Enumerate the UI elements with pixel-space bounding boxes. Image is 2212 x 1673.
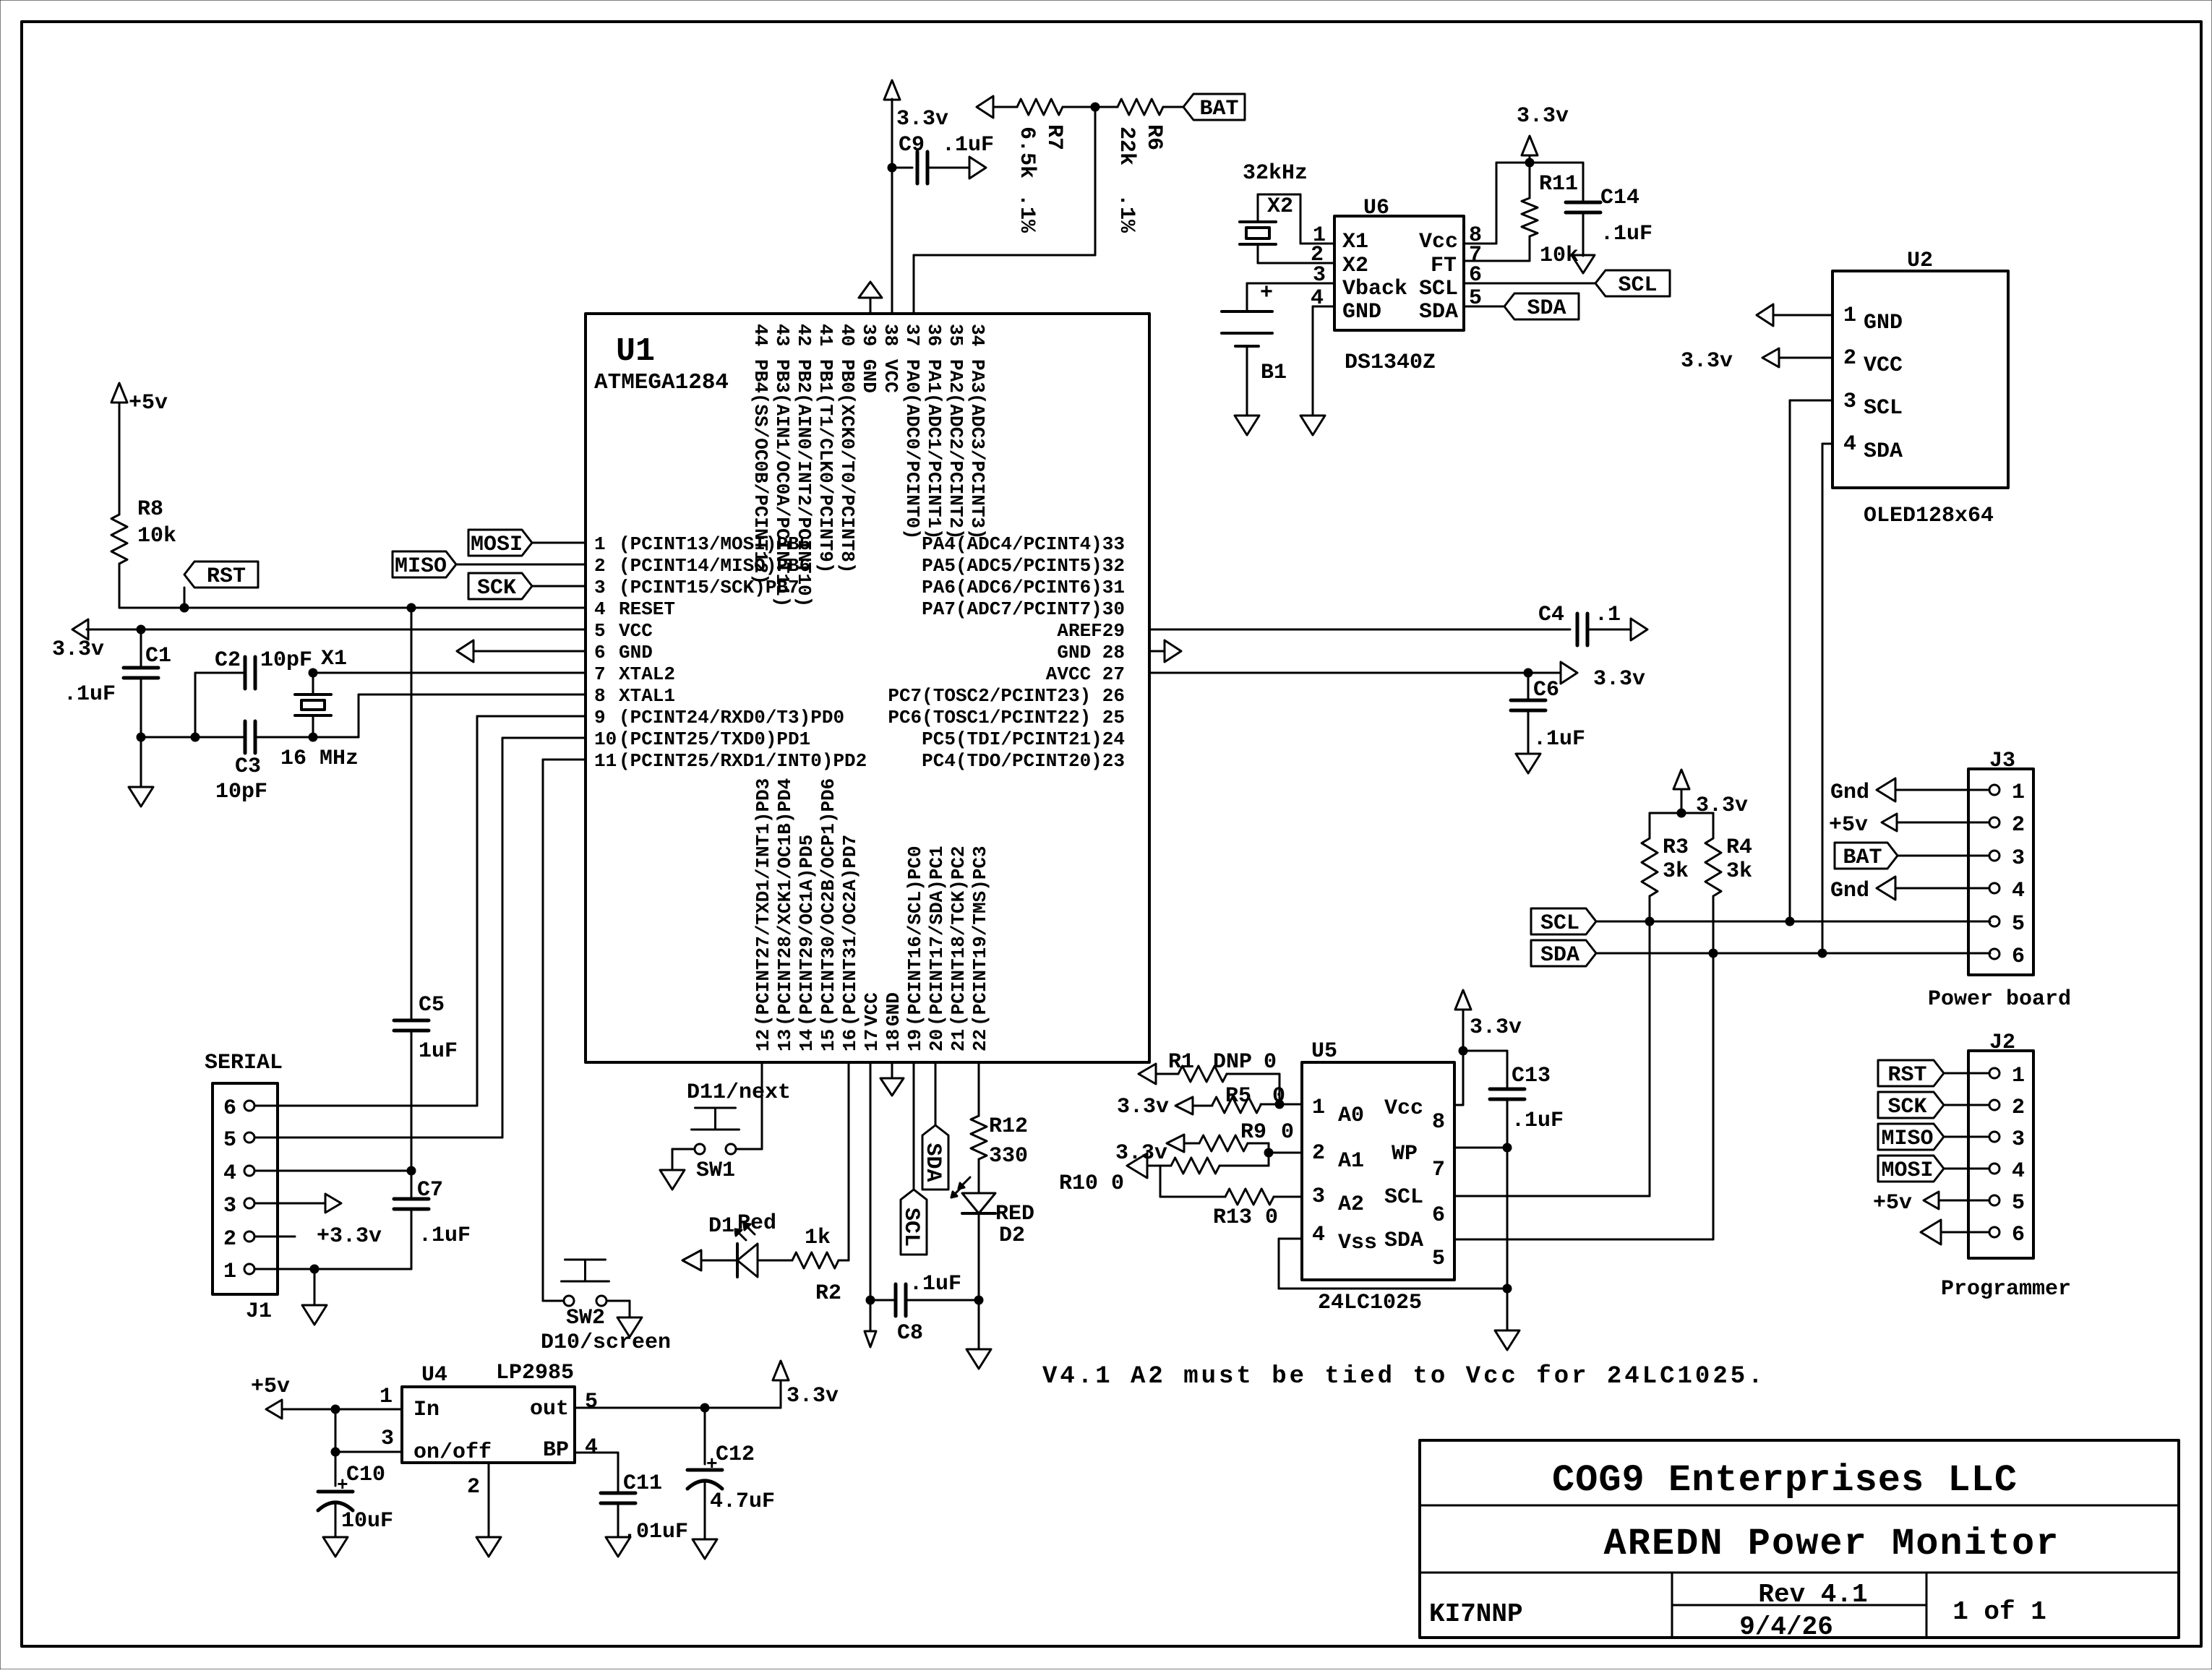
svg-text:MISO: MISO [1881, 1127, 1933, 1151]
svg-text:4.7uF: 4.7uF [710, 1489, 775, 1514]
J2 pin 3 circle [1989, 1132, 1999, 1142]
svg-text:5: 5 [223, 1128, 236, 1153]
arrow right AVCC 3.3v [1528, 672, 1561, 674]
svg-text:3.3v: 3.3v [52, 637, 104, 662]
svg-text:3.3v: 3.3v [1117, 1095, 1169, 1119]
J1 pin 4 circle [244, 1166, 254, 1176]
wire GND pin28 arrow [1149, 650, 1165, 653]
wire J1-2 stub [254, 1236, 295, 1238]
power 3.3v arrow at out [780, 1380, 782, 1408]
svg-text:X2: X2 [1342, 254, 1368, 278]
svg-text:U5: U5 [1311, 1039, 1337, 1064]
wire J3-4 Gnd [1895, 887, 1989, 890]
power 3.3v arrow above R3 R4 [1673, 770, 1689, 789]
svg-text:3.3v: 3.3v [1517, 104, 1569, 129]
wire AVCC pin27 to C6 [1149, 672, 1528, 674]
svg-text:8: 8 [1432, 1110, 1445, 1135]
arrow GND pin6 [457, 640, 473, 662]
wire SW1 left to gnd [672, 1148, 695, 1151]
svg-text:C5: C5 [419, 993, 445, 1018]
svg-text:3.3v: 3.3v [1115, 1141, 1167, 1166]
svg-text:20: 20 [926, 1029, 948, 1051]
svg-text:SERIAL: SERIAL [205, 1051, 283, 1075]
svg-text:KI7NNP: KI7NNP [1429, 1599, 1523, 1629]
junction R9 R10 pin A1 [1264, 1148, 1273, 1157]
svg-text:3: 3 [594, 577, 606, 598]
svg-text:4: 4 [2012, 1159, 2025, 1184]
svg-text:.1uF: .1uF [909, 1272, 961, 1296]
svg-text:13: 13 [774, 1029, 796, 1051]
wire BP pin4 to C11 [575, 1452, 618, 1454]
svg-text:3.3v: 3.3v [1681, 349, 1733, 374]
svg-text:C2: C2 [215, 648, 241, 673]
svg-text:42: 42 [793, 324, 815, 346]
J1 pin 2 circle [244, 1231, 254, 1242]
J3 pin 1 circle [1989, 785, 1999, 795]
svg-text:C10: C10 [346, 1463, 385, 1487]
svg-text:44: 44 [750, 324, 771, 346]
svg-text:(PCINT24/RXD0/T3)PD0: (PCINT24/RXD0/T3)PD0 [619, 707, 844, 728]
svg-text:PB0(XCK0/T0/PCINT8): PB0(XCK0/T0/PCINT8) [836, 359, 858, 573]
capacitor C2 10pF [244, 657, 247, 689]
net flag MOSI at J2 [1878, 1156, 1944, 1182]
svg-text:SCL: SCL [1864, 396, 1903, 421]
svg-text:C14: C14 [1600, 186, 1639, 210]
svg-text:0: 0 [1272, 1084, 1285, 1109]
svg-text:2: 2 [1312, 1141, 1325, 1166]
J1 pin 5 circle [244, 1132, 254, 1143]
svg-text:.1%: .1% [1114, 194, 1139, 233]
svg-text:6: 6 [2012, 1223, 2025, 1247]
svg-text:1: 1 [380, 1385, 393, 1409]
svg-text:SW2: SW2 [566, 1306, 605, 1330]
svg-text:(PCINT25/TXD0)PD1: (PCINT25/TXD0)PD1 [619, 728, 810, 750]
svg-text:PA7(ADC7/PCINT7)30: PA7(ADC7/PCINT7)30 [922, 598, 1125, 620]
wire J1-5 to pin10 net [254, 1137, 502, 1139]
svg-text:43: 43 [771, 324, 793, 346]
wire PA0 pin37 to divider [913, 255, 915, 314]
junction Vss gnd rail [1503, 1284, 1512, 1293]
IC U2 OLED128x64 body [1832, 271, 2008, 488]
wire R8 to RESET line [119, 564, 121, 608]
svg-text:C3: C3 [235, 754, 261, 779]
svg-text:(PCINT27/TXD1/INT1)PD3: (PCINT27/TXD1/INT1)PD3 [753, 778, 774, 1026]
wire TXD0 pin10 to J1-5 [502, 737, 586, 739]
ground below C12 [693, 1539, 717, 1559]
svg-text:10uF: 10uF [341, 1509, 393, 1534]
svg-text:330: 330 [989, 1144, 1028, 1169]
wire pin19 down to SCL flag [913, 1062, 915, 1190]
LED D1 Red [736, 1244, 739, 1277]
svg-text:XTAL2: XTAL2 [619, 663, 675, 685]
svg-text:R10 0: R10 0 [1059, 1171, 1124, 1196]
svg-text:B1: B1 [1261, 361, 1287, 385]
svg-text:Red: Red [737, 1211, 776, 1236]
ground below D2 [966, 1349, 991, 1369]
svg-text:J1: J1 [246, 1299, 272, 1324]
J2 pin 5 circle [1989, 1195, 1999, 1205]
svg-text:9: 9 [594, 707, 606, 728]
power 3.3v arrow above R11 [1522, 136, 1538, 155]
svg-text:PC5(TDI/PCINT21)24: PC5(TDI/PCINT21)24 [922, 728, 1125, 750]
svg-text:U2: U2 [1907, 249, 1933, 273]
svg-text:out: out [530, 1397, 569, 1422]
capacitor C3 10pF [244, 721, 247, 753]
svg-text:MISO: MISO [395, 554, 447, 579]
svg-text:In: In [413, 1398, 440, 1422]
svg-text:9/4/26: 9/4/26 [1739, 1612, 1833, 1642]
svg-text:3.3v: 3.3v [1593, 667, 1645, 692]
svg-text:RESET: RESET [619, 598, 675, 620]
svg-text:3: 3 [2012, 1127, 2025, 1152]
svg-text:SDA: SDA [1419, 300, 1458, 324]
J3 pin 4 circle [1989, 883, 1999, 893]
resistor R6 22k .1% [1095, 106, 1118, 108]
wire RXD0 pin9 to J1-6 [477, 715, 586, 718]
wire U5 SDA pin5 [1454, 1239, 1713, 1241]
svg-text:17: 17 [861, 1029, 883, 1051]
svg-text:32kHz: 32kHz [1243, 161, 1308, 186]
svg-text:8: 8 [594, 685, 606, 707]
wire J2-5 +5v [1939, 1200, 1989, 1202]
wire R4 down to U5 SDA [1712, 953, 1715, 1239]
svg-text:4: 4 [1312, 1223, 1325, 1247]
svg-text:R2: R2 [815, 1281, 841, 1306]
svg-text:A0: A0 [1338, 1104, 1364, 1128]
svg-text:BP: BP [543, 1438, 569, 1463]
wire XTAL1 pin8 jog [358, 694, 360, 737]
J3 pin 2 circle [1989, 817, 1999, 827]
svg-text:PA2(ADC2/PCINT2): PA2(ADC2/PCINT2) [945, 359, 966, 540]
gnd triangle below C14 [1572, 255, 1595, 273]
wire R2 to pin16 [839, 1260, 849, 1262]
wire SW1 right to pin12 [736, 1148, 762, 1151]
J1 pin 1 circle [244, 1264, 254, 1274]
svg-text:R5: R5 [1225, 1084, 1251, 1109]
svg-text:.1uF: .1uF [1512, 1109, 1564, 1133]
svg-text:3k: 3k [1663, 859, 1689, 884]
wire U2 GND pin1 [1773, 314, 1832, 317]
svg-text:22k: 22k [1114, 126, 1139, 165]
svg-text:10pF: 10pF [215, 780, 267, 804]
svg-text:18: 18 [883, 1029, 904, 1051]
svg-text:VCC: VCC [861, 992, 883, 1026]
svg-text:VCC: VCC [880, 359, 901, 393]
capacitor C8 .1uF [870, 1299, 896, 1302]
svg-text:7: 7 [1432, 1158, 1445, 1182]
rail R3 R4 top [1650, 812, 1713, 814]
gnd symbol pin39 above U1 [870, 298, 872, 314]
J3 pin 6 circle [1989, 949, 1999, 959]
net flag RST at J2 [1878, 1060, 1944, 1086]
svg-text:R11: R11 [1539, 172, 1578, 197]
wire U2 VCC pin2 [1779, 357, 1832, 359]
svg-text:DS1340Z: DS1340Z [1345, 350, 1436, 375]
svg-text:AREDN Power Monitor: AREDN Power Monitor [1604, 1523, 2060, 1565]
wire In pin1 +5v [282, 1408, 402, 1411]
capacitor C6 .1uF [1527, 673, 1530, 700]
wire pin20 down to SDA flag [935, 1062, 937, 1125]
resistor R13 0 to pin A2 [1159, 1166, 1162, 1197]
svg-text:R6: R6 [1141, 124, 1166, 150]
svg-text:(PCINT31/OC2A)PD7: (PCINT31/OC2A)PD7 [839, 835, 861, 1026]
wire SDA rail [1596, 952, 1990, 955]
svg-text:PB3(AIN1/OC0A/PCINT11): PB3(AIN1/OC0A/PCINT11) [771, 359, 793, 607]
capacitor C9 .1uF [892, 167, 912, 169]
svg-text:PC4(TDO/PCINT20)23: PC4(TDO/PCINT20)23 [922, 750, 1125, 772]
arrow left U2 VCC 3.3v [1762, 348, 1779, 367]
net flag MISO to pin2 [393, 551, 456, 577]
svg-text:SDA: SDA [1540, 943, 1579, 968]
wire AREF pin29 to C4 [1149, 629, 1570, 631]
arrow left U2 GND [1757, 304, 1773, 326]
junction In on/off [331, 1405, 340, 1414]
svg-text:.1uF: .1uF [1600, 222, 1652, 246]
resistor R1 DNP 0 [1139, 1064, 1156, 1084]
svg-text:J3: J3 [1989, 749, 2015, 773]
svg-text:C6: C6 [1533, 678, 1559, 702]
svg-text:SDA: SDA [1527, 296, 1566, 321]
svg-text:3: 3 [2012, 846, 2025, 871]
svg-text:39: 39 [858, 324, 880, 346]
arrow left D1 [682, 1250, 701, 1270]
svg-text:4: 4 [585, 1435, 598, 1460]
svg-text:R8: R8 [137, 497, 163, 522]
junction X1 bottom [309, 733, 317, 741]
svg-text:Vback: Vback [1342, 277, 1407, 301]
svg-text:RST: RST [207, 564, 246, 589]
svg-text:4: 4 [2012, 879, 2025, 903]
svg-text:SCL: SCL [899, 1208, 923, 1247]
resistor R12 330 [978, 1062, 980, 1116]
resistor R2 1k [758, 1260, 792, 1262]
J3 pin 3 circle [1989, 851, 1999, 861]
ground below C11 [606, 1537, 630, 1557]
svg-text:MOSI: MOSI [1881, 1158, 1933, 1183]
resistor R11 10k [1529, 163, 1531, 198]
resistor R3 3k [1649, 813, 1651, 838]
svg-text:PA0(ADC0/PCINT0): PA0(ADC0/PCINT0) [901, 359, 923, 540]
svg-text:+5v: +5v [129, 391, 168, 416]
net flag MISO at J2 [1878, 1124, 1944, 1150]
svg-text:AVCC 27: AVCC 27 [1046, 663, 1125, 685]
svg-text:J2: J2 [1989, 1031, 2015, 1055]
svg-text:XTAL1: XTAL1 [619, 685, 675, 707]
svg-text:C11: C11 [623, 1471, 662, 1496]
svg-text:+: + [1260, 281, 1273, 306]
IC U1 ATMEGA1284 body [586, 314, 1149, 1062]
wire J3-2 +5v [1897, 822, 1989, 824]
net flag SCL vertical [901, 1190, 927, 1255]
wire Vback pin3 to battery [1247, 283, 1334, 285]
svg-text:4: 4 [594, 598, 606, 620]
wire J1-3 +3.3v arrow [254, 1203, 325, 1205]
svg-text:19: 19 [904, 1029, 926, 1051]
svg-text:(PCINT25/RXD1/INT0)PD2: (PCINT25/RXD1/INT0)PD2 [619, 750, 867, 772]
ground below U6 pin4 [1300, 416, 1325, 435]
svg-text:Vcc: Vcc [1419, 230, 1458, 254]
wire Vcc pin8 to 3.3v [1464, 243, 1496, 245]
svg-text:D11/next: D11/next [687, 1080, 791, 1105]
connector J1 SERIAL body [213, 1083, 278, 1294]
svg-text:1: 1 [1843, 304, 1856, 328]
wire SW2 right to gnd [606, 1300, 630, 1302]
wire U5 SCL pin6 [1454, 1195, 1650, 1197]
capacitor C12 4.7uF [704, 1408, 706, 1464]
wire J1-1 gnd [254, 1268, 411, 1270]
svg-text:16: 16 [839, 1029, 861, 1051]
svg-text:Vss: Vss [1338, 1231, 1377, 1255]
capacitor C4 .1 [1576, 614, 1579, 645]
svg-text:.1uF: .1uF [419, 1223, 471, 1248]
junction C6 [1524, 668, 1532, 677]
svg-text:21: 21 [948, 1029, 969, 1051]
net flag SCL main [1531, 908, 1596, 934]
net flag SDA vertical [922, 1125, 948, 1190]
svg-text:D2: D2 [999, 1223, 1025, 1248]
svg-text:C7: C7 [417, 1178, 443, 1203]
svg-text:Vcc: Vcc [1384, 1096, 1423, 1121]
svg-text:PB1(T1/CLK0/PCINT9): PB1(T1/CLK0/PCINT9) [815, 359, 836, 573]
gnd symbol pin18 below U1 [891, 1062, 893, 1078]
J1 pin 3 circle [244, 1198, 254, 1208]
svg-text:3: 3 [1843, 390, 1856, 414]
svg-text:U1: U1 [616, 333, 655, 370]
wire R3 down to U5 SCL [1649, 921, 1651, 1196]
svg-text:5: 5 [594, 620, 606, 642]
svg-text:35: 35 [945, 324, 966, 346]
svg-text:GND: GND [1342, 300, 1381, 324]
svg-text:RST: RST [1887, 1063, 1926, 1088]
wire SCL rail [1596, 921, 1990, 923]
svg-text:3: 3 [1312, 1184, 1325, 1209]
connector J3 Power board body [1968, 769, 2033, 975]
J3 pin 5 circle [1989, 916, 1999, 926]
svg-text:C9: C9 [899, 133, 925, 158]
svg-text:GND: GND [858, 359, 880, 393]
svg-text:COG9 Enterprises LLC: COG9 Enterprises LLC [1552, 1459, 2018, 1502]
wire J3-1 Gnd [1895, 789, 1989, 791]
capacitor C1 .1uF [140, 629, 142, 668]
svg-text:PB4(SS/OC0B/PCINT12): PB4(SS/OC0B/PCINT12) [750, 359, 771, 585]
svg-text:1uF: 1uF [419, 1039, 458, 1064]
svg-text:5: 5 [585, 1390, 598, 1414]
svg-text:37: 37 [901, 324, 923, 346]
svg-text:38: 38 [880, 324, 901, 346]
wire FT pin7 to R11 [1464, 260, 1530, 262]
wire J1-4 to C5 [254, 1170, 411, 1172]
svg-text:U6: U6 [1363, 196, 1389, 220]
svg-text:36: 36 [923, 324, 945, 346]
title block frame [1420, 1440, 2179, 1638]
svg-text:1: 1 [223, 1260, 236, 1284]
arrow 3.3v left of R7 [977, 96, 993, 118]
svg-text:1: 1 [2012, 1064, 2025, 1088]
svg-text:34: 34 [966, 324, 988, 346]
ground below J1-1 [302, 1305, 327, 1325]
svg-text:3k: 3k [1726, 859, 1752, 884]
svg-text:5: 5 [2012, 912, 2025, 937]
junction SCL U2 [1786, 917, 1794, 926]
junction C2 left [191, 733, 200, 741]
svg-text:R1: R1 [1168, 1050, 1194, 1075]
net flag MOSI to pin1 [468, 530, 532, 556]
svg-text:+5v: +5v [1829, 813, 1868, 838]
wire SDA pin5 to flag [1464, 306, 1504, 308]
J2 pin 4 circle [1989, 1164, 1999, 1174]
svg-text:C13: C13 [1512, 1064, 1551, 1088]
IC U5 24LC1025 body [1302, 1062, 1454, 1280]
svg-text:VCC: VCC [1864, 353, 1903, 378]
junction C8 right [974, 1296, 983, 1304]
svg-text:SCK: SCK [1887, 1095, 1926, 1119]
capacitor C5 1uF [411, 608, 413, 1020]
svg-text:R3: R3 [1663, 835, 1689, 860]
J2 pin 2 circle [1989, 1100, 1999, 1110]
svg-text:R12: R12 [989, 1114, 1028, 1139]
svg-text:3.3v: 3.3v [1696, 794, 1748, 818]
wire pin2 gnd [488, 1463, 490, 1537]
svg-text:R7: R7 [1042, 124, 1066, 150]
junction C1 [137, 625, 145, 634]
svg-text:A1: A1 [1338, 1149, 1364, 1174]
J2 pin 1 circle [1989, 1068, 1999, 1078]
net flag SCK at J2 [1878, 1092, 1944, 1118]
wire WP pin7 to gnd rail [1454, 1147, 1507, 1149]
wire X2 top to U6 pin1 [1257, 194, 1259, 222]
svg-text:ATMEGA1284: ATMEGA1284 [594, 370, 729, 395]
arrow right C4 [1631, 619, 1647, 640]
J2 pin 6 circle [1989, 1227, 1999, 1237]
svg-text:SDA: SDA [920, 1143, 945, 1182]
svg-text:GND 28: GND 28 [1057, 642, 1125, 663]
resistor R7 6.5k .1% [993, 106, 1017, 108]
resistor R8 10k [111, 515, 127, 564]
ground below C6 [1516, 754, 1540, 773]
svg-text:(PCINT29/OC1A)PD5: (PCINT29/OC1A)PD5 [796, 835, 818, 1026]
svg-text:11: 11 [594, 750, 617, 772]
connector J2 Programmer body [1968, 1051, 2033, 1258]
svg-text:3.3v: 3.3v [1470, 1015, 1522, 1040]
svg-text:X1: X1 [321, 647, 347, 671]
svg-text:DNP: DNP [1213, 1050, 1252, 1075]
svg-text:24LC1025: 24LC1025 [1318, 1291, 1422, 1315]
wire U2 SCL pin3 down [1790, 400, 1832, 402]
svg-text:Programmer: Programmer [1941, 1277, 2071, 1302]
IC U6 DS1340Z body [1334, 216, 1464, 330]
svg-text:SCL: SCL [1618, 273, 1657, 298]
svg-text:LP2985: LP2985 [496, 1361, 574, 1385]
svg-text:.1uF: .1uF [1533, 727, 1585, 752]
svg-text:BAT: BAT [1843, 846, 1882, 870]
svg-text:3.3v: 3.3v [786, 1384, 839, 1408]
svg-text:A2: A2 [1338, 1192, 1364, 1217]
capacitor C10 10uF [335, 1452, 337, 1486]
junction C1 gnd rail [137, 733, 145, 741]
svg-text:1: 1 [594, 533, 606, 555]
wire GND pin4 [1313, 306, 1334, 308]
svg-text:6: 6 [594, 642, 606, 663]
svg-text:C1: C1 [145, 644, 171, 668]
svg-text:6: 6 [2012, 945, 2025, 969]
svg-text:1k: 1k [805, 1226, 831, 1250]
wire J2-6 arrow [1941, 1231, 1989, 1234]
svg-text:WP: WP [1392, 1142, 1418, 1166]
svg-text:+5v: +5v [251, 1375, 290, 1399]
svg-text:5: 5 [1432, 1247, 1445, 1271]
wire XTAL2 pin7 [313, 672, 586, 674]
svg-text:0: 0 [1264, 1050, 1277, 1075]
